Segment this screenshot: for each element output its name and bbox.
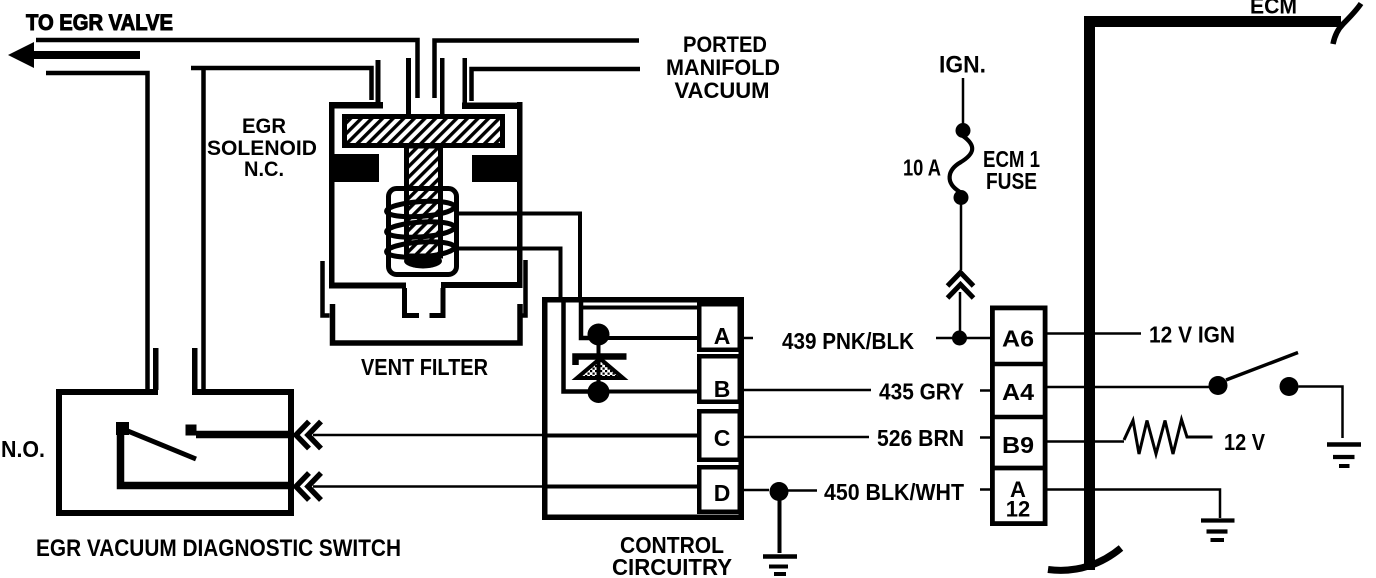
svg-text:A: A	[714, 323, 731, 349]
coil winding loop 2	[386, 220, 455, 240]
connector divider 1	[990, 362, 1047, 367]
fuse bottom dot	[954, 190, 969, 205]
inner wire to zener top	[581, 299, 590, 338]
svg-text:A4: A4	[1002, 379, 1034, 405]
terminal cell C	[699, 411, 740, 460]
switch tube mouth stub right	[192, 348, 198, 390]
fuse element	[950, 136, 973, 192]
wire IGN to fuse	[962, 78, 965, 124]
svg-text:526 BRN: 526 BRN	[877, 425, 964, 451]
zener stub to lower dot	[597, 344, 601, 383]
coil winding loop 1	[386, 199, 455, 219]
arrow to EGR valve	[8, 42, 140, 68]
svg-text:10 A: 10 A	[903, 155, 941, 181]
svg-text:12: 12	[1006, 497, 1030, 522]
chevron connector bottom	[296, 473, 321, 500]
pole piece black block right	[472, 155, 517, 182]
solenoid housing top right edge	[462, 103, 519, 110]
wire coil to control box terminal B side	[458, 249, 561, 298]
wire splice to junction	[959, 292, 962, 334]
svg-text:CIRCUITRY: CIRCUITRY	[612, 554, 732, 578]
svg-text:ECM: ECM	[1250, 0, 1297, 19]
wire stub terminal A	[744, 337, 753, 340]
switch contact left	[116, 422, 129, 435]
EGR vacuum diagnostic switch box	[59, 392, 291, 513]
ECM boundary break squiggle	[1333, 4, 1361, 45]
ECM connector outer box	[992, 308, 1045, 524]
wire dot to label	[788, 489, 817, 492]
splice chevron upper	[948, 273, 974, 287]
center tube outer right wall	[440, 58, 445, 114]
svg-text:12 V IGN: 12 V IGN	[1149, 322, 1235, 348]
switch blade ECM	[1226, 353, 1298, 381]
solenoid left tube inner wall stub	[376, 60, 381, 103]
svg-text:B: B	[714, 376, 731, 402]
inner left wire to zener bottom	[564, 299, 591, 392]
ground symbol A4	[1327, 445, 1361, 467]
switch contact dot right	[1280, 377, 1299, 396]
solenoid plunger hatched stem	[407, 146, 441, 256]
wire C through box	[544, 434, 699, 438]
svg-text:PORTED: PORTED	[683, 32, 767, 57]
label ECM 1 FUSE	[983, 146, 1040, 194]
inner top wire to A	[581, 306, 699, 310]
ground junction dot	[770, 482, 789, 501]
vacuum tube lower-left to diagnostic switch	[46, 73, 148, 389]
coil bobbin	[389, 189, 457, 275]
svg-text:439 PNK/BLK: 439 PNK/BLK	[782, 328, 914, 354]
label CONTROL CIRCUITRY	[612, 532, 732, 578]
plunger bottom cap	[404, 254, 442, 269]
solenoid armature hatched bar	[345, 117, 503, 146]
ported manifold vacuum upper tube	[435, 41, 640, 99]
control circuitry box	[545, 300, 742, 518]
wire B9 to resistor	[1045, 440, 1124, 443]
connector divider 3	[990, 466, 1047, 471]
vent filter bracket left	[323, 261, 330, 316]
svg-text:450 BLK/WHT: 450 BLK/WHT	[824, 479, 965, 505]
pin label A 12	[1006, 477, 1030, 522]
svg-text:SOLENOID: SOLENOID	[207, 137, 317, 160]
tube drop wall to switch	[201, 68, 206, 389]
svg-text:B9: B9	[1002, 432, 1034, 458]
ECM boundary thick line	[1090, 22, 1342, 571]
svg-text:435 GRY: 435 GRY	[879, 379, 964, 405]
svg-text:N.C.: N.C.	[244, 158, 284, 181]
svg-text:VENT FILTER: VENT FILTER	[361, 354, 488, 380]
wire chevron to control box D	[313, 485, 544, 488]
label EGR SOLENOID N.C.	[207, 115, 317, 181]
solenoid housing right wall	[517, 102, 523, 288]
vacuum tube from EGR valve to solenoid top	[36, 40, 418, 98]
vent filter bracket right	[519, 260, 526, 316]
switch contact dot left	[1209, 376, 1228, 395]
center tube outer left wall	[406, 58, 411, 114]
label PORTED MANIFOLD VACUUM	[666, 32, 780, 103]
wire 439 PNK/BLK label segment	[936, 337, 990, 340]
fuse top dot	[956, 123, 971, 138]
ported manifold vacuum lower tube	[472, 69, 641, 101]
svg-text:VACUUM: VACUUM	[675, 78, 770, 103]
coil winding loop 3	[386, 240, 455, 260]
switch contact right	[186, 425, 197, 436]
wire 526 BRN to connector	[980, 436, 992, 439]
solenoid housing top left edge	[329, 102, 383, 109]
svg-text:TO EGR VALVE: TO EGR VALVE	[26, 10, 173, 35]
solenoid housing bottom left edge	[329, 283, 406, 289]
wire A4 to switch	[1045, 386, 1209, 389]
zener diode cathode bar	[576, 357, 627, 366]
svg-text:EGR: EGR	[242, 115, 286, 138]
wire dot to terminal B	[598, 390, 699, 394]
ECM boundary bottom hook	[1048, 548, 1121, 570]
switch right contact wire to chevron C	[196, 431, 294, 439]
ground symbol control	[763, 557, 797, 575]
wire chevron to control box C	[313, 434, 544, 437]
wire fuse to splice	[960, 204, 963, 270]
terminal cell A	[699, 304, 740, 350]
solenoid vent notch left	[405, 288, 420, 316]
wire dot to ground	[778, 500, 782, 553]
wire 450 BLK/WHT to connector	[980, 488, 992, 491]
solenoid vent notch right	[430, 288, 444, 316]
terminal cell B	[699, 356, 740, 402]
wire 435 GRY to connector	[980, 389, 992, 392]
zener anode triangle	[577, 359, 623, 379]
wire terminal C 526 BRN	[744, 436, 869, 439]
resistor	[1124, 420, 1213, 455]
switch blade	[123, 429, 196, 459]
right tube inner wall stub	[463, 58, 468, 103]
svg-text:FUSE: FUSE	[986, 168, 1037, 194]
wire terminal B 435 GRY	[744, 389, 871, 392]
junction dot fuse feed	[952, 331, 967, 346]
terminal cell D	[699, 467, 740, 512]
wire switch to ground	[1299, 387, 1343, 439]
junction dot lower	[588, 381, 610, 403]
wire terminal D 450 BLK/WHT	[744, 489, 769, 492]
wire coil to control box terminal A side	[459, 214, 580, 298]
splice chevron lower	[948, 285, 974, 299]
wire dot to terminal A	[598, 336, 699, 340]
svg-text:C: C	[714, 425, 731, 451]
connector divider 2	[990, 415, 1047, 420]
svg-text:MANIFOLD: MANIFOLD	[666, 55, 780, 80]
svg-text:A6: A6	[1002, 326, 1034, 352]
svg-text:IGN.: IGN.	[939, 52, 986, 79]
vacuum tube from solenoid left port to switch	[191, 68, 372, 100]
svg-text:D: D	[714, 480, 731, 506]
solenoid housing bottom right edge	[441, 282, 519, 288]
chevron connector top	[296, 422, 321, 449]
switch left contact wire to chevron D	[121, 433, 295, 486]
ground symbol A12	[1201, 521, 1235, 541]
svg-text:12 V: 12 V	[1224, 429, 1265, 455]
svg-text:EGR VACUUM DIAGNOSTIC SWITCH: EGR VACUUM DIAGNOSTIC SWITCH	[36, 535, 401, 562]
pole piece black block left	[333, 154, 379, 182]
vent filter tray	[333, 304, 521, 343]
wire A12 to ground	[1045, 490, 1220, 519]
junction dot upper	[588, 324, 610, 346]
solenoid housing left wall	[329, 102, 335, 288]
wire D through box	[544, 485, 699, 489]
switch tube mouth stub left	[153, 348, 159, 390]
wire A6 to 12V IGN	[1045, 332, 1141, 335]
svg-text:N.O.: N.O.	[1, 436, 45, 462]
